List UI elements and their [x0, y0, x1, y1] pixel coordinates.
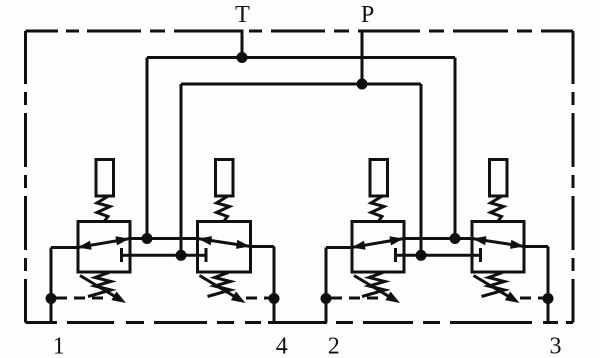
svg-text:2: 2 — [328, 334, 340, 358]
valve V4 pilot box — [490, 160, 508, 197]
node P junction — [357, 79, 368, 90]
node T junction — [237, 52, 248, 63]
port P stub wire — [361, 30, 364, 85]
node port 3 pilot junction — [543, 293, 554, 304]
wire V1 outlet horizontal — [51, 246, 78, 249]
valve V2 envelope — [198, 222, 251, 273]
valve V4 arrowhead right — [510, 240, 524, 249]
wire V4 outlet horizontal — [524, 245, 548, 248]
valve V3 top spring — [371, 196, 384, 221]
enclosure border bottom (dash-dot) — [26, 321, 574, 324]
T rail wire — [147, 56, 455, 59]
enclosure border right (dash-dot) — [572, 31, 575, 323]
P drop wire right — [420, 84, 423, 255]
wire upper interconnect right pair — [404, 237, 472, 240]
valve V1 arrowhead left — [78, 241, 92, 250]
svg-text:4: 4 — [276, 334, 288, 358]
wire port 4 vertical — [273, 247, 276, 323]
valve V2 adjust arrow shaft — [200, 276, 240, 300]
svg-text:3: 3 — [550, 334, 562, 358]
valve V4 adjust arrowhead — [505, 292, 520, 304]
svg-text:T: T — [235, 2, 250, 28]
enclosure border top (dash-dot) — [26, 30, 574, 33]
node port 4 pilot junction — [269, 293, 280, 304]
valve V4 flow path — [472, 239, 525, 247]
valve V3 blocked port stub — [396, 254, 406, 257]
valve V4 blocked port bar — [479, 248, 482, 262]
wire lower interconnect left pair — [130, 254, 198, 257]
valve V4 bottom spring — [482, 273, 505, 297]
wire port 3 vertical — [547, 247, 550, 323]
valve V2 pilot box — [216, 160, 234, 197]
valve V3 envelope — [352, 222, 404, 273]
wire upper interconnect left pair — [130, 237, 198, 240]
valve V2 bottom spring — [208, 273, 231, 297]
node T to upper line right — [450, 233, 461, 244]
T drop wire left — [146, 58, 149, 239]
node port 1 pilot junction — [46, 293, 57, 304]
node port 2 pilot junction — [321, 293, 332, 304]
valve V2 adjust arrowhead — [231, 292, 246, 304]
valve V4 adjust arrow shaft — [474, 276, 514, 300]
pilot line V3 (dashed) — [331, 297, 384, 300]
valve V2 top spring — [217, 196, 230, 221]
node P to lower line left — [176, 250, 187, 261]
valve V2 arrowhead left — [198, 236, 212, 245]
wire port 2 vertical — [325, 248, 328, 323]
wire V3 outlet horizontal — [326, 246, 352, 249]
valve V3 pilot box — [370, 160, 388, 197]
valve V1 arrowhead right — [115, 236, 129, 245]
valve V4 top spring — [491, 196, 504, 221]
valve V1 adjust arrow shaft — [80, 276, 120, 300]
node T to upper line left — [142, 233, 153, 244]
valve V3 adjust arrowhead — [385, 292, 400, 304]
valve V1 flow path — [78, 239, 131, 248]
valve V2 blocked port bar — [205, 248, 208, 262]
port T stub wire — [241, 30, 244, 58]
valve V1 blocked port stub — [122, 254, 132, 257]
valve V4 envelope — [472, 222, 524, 273]
wire V2 outlet horizontal — [251, 245, 275, 248]
T drop wire right — [454, 58, 457, 239]
valve V2 arrowhead right — [236, 240, 250, 249]
pilot line V4 (dashed) — [520, 297, 544, 300]
valve V1 bottom spring — [88, 273, 111, 297]
svg-text:1: 1 — [53, 334, 65, 358]
valve V3 arrowhead right — [389, 236, 403, 245]
pilot line V1 (dashed) — [56, 297, 110, 300]
P drop wire left — [180, 84, 183, 255]
valve V4 blocked port stub — [472, 254, 481, 257]
valve V1 envelope — [78, 222, 130, 273]
enclosure border left (dash-dot) — [24, 31, 27, 323]
valve V2 flow path — [198, 239, 251, 247]
valve V1 pilot box — [96, 160, 114, 197]
valve V3 blocked port bar — [394, 248, 397, 262]
valve V4 arrowhead left — [473, 236, 487, 245]
wire lower interconnect right pair — [404, 254, 472, 257]
valve V1 adjust arrowhead — [111, 292, 126, 304]
node P to lower line right — [416, 250, 427, 261]
P rail wire — [181, 83, 421, 86]
valve V3 adjust arrow shaft — [354, 276, 394, 300]
valve V3 arrowhead left — [352, 241, 366, 250]
valve V2 blocked port stub — [197, 254, 206, 257]
valve V1 blocked port bar — [120, 248, 123, 262]
valve V3 flow path — [352, 239, 405, 248]
valve V1 top spring — [97, 196, 110, 221]
svg-text:P: P — [361, 2, 374, 28]
wire port 1 vertical — [50, 248, 53, 323]
valve V3 bottom spring — [362, 273, 385, 297]
pilot line V2 (dashed) — [246, 297, 270, 300]
